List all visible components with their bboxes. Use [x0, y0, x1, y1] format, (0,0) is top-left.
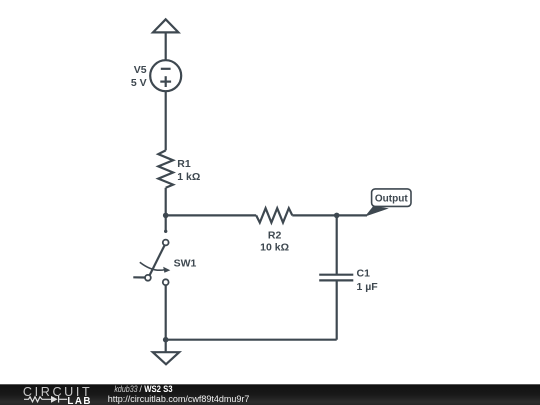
resistor R1: [158, 150, 173, 187]
svg-text:1 µF: 1 µF: [357, 281, 379, 293]
wire end dot: [164, 230, 167, 233]
footer bar: [0, 384, 540, 405]
footer title line: [114, 384, 172, 394]
svg-text:http://circuitlab.com/cwf89t4d: http://circuitlab.com/cwf89t4dmu9r7: [108, 394, 250, 404]
label R1 / 1 kOhm: [177, 158, 200, 183]
svg-text:LAB: LAB: [67, 396, 90, 405]
wire R1 to node: [165, 188, 167, 216]
label V5 / 5 V: [131, 64, 147, 89]
wire switch to bottom node: [165, 285, 167, 340]
wire arrow to V5: [165, 32, 167, 60]
svg-text:SW1: SW1: [174, 257, 197, 269]
svg-text:C1: C1: [357, 268, 371, 280]
junction node left: [163, 213, 169, 219]
capacitor C1: [319, 275, 353, 281]
junction node right: [334, 213, 340, 219]
svg-text:5 V: 5 V: [131, 77, 147, 89]
wire V5 to R1: [165, 91, 167, 150]
voltage source V5: [150, 60, 181, 91]
label R2 / 10 kOhm: [260, 229, 289, 253]
junction node bottom: [163, 337, 169, 343]
wire R2 to node: [292, 214, 336, 216]
label C1 / 1 uF: [357, 268, 379, 293]
svg-text:R2: R2: [268, 229, 282, 241]
wire node to output flag: [337, 214, 367, 216]
svg-text:kdub33: kdub33: [114, 384, 137, 394]
ground: [153, 340, 179, 365]
resistor R2: [256, 208, 292, 222]
wire up to C1: [336, 280, 338, 339]
wire node to C1 top: [336, 215, 338, 274]
CircuitLab logo wire-resistor-diode glyph: [24, 396, 67, 403]
wire bottom horizontal: [166, 339, 337, 341]
svg-text:Output: Output: [375, 194, 408, 205]
wire node to switch: [165, 215, 167, 231]
svg-text:1 kΩ: 1 kΩ: [177, 171, 200, 183]
output flag box: [372, 189, 411, 207]
output flag tail: [365, 206, 389, 217]
svg-text:WS2 S3: WS2 S3: [144, 384, 172, 394]
svg-text:R1: R1: [177, 158, 191, 170]
switch SW1: [133, 240, 170, 286]
wire node to R2: [166, 214, 257, 216]
svg-text:10 kΩ: 10 kΩ: [260, 241, 289, 253]
svg-text:V5: V5: [134, 64, 147, 76]
node arrow (power node, up triangle): [153, 19, 178, 32]
